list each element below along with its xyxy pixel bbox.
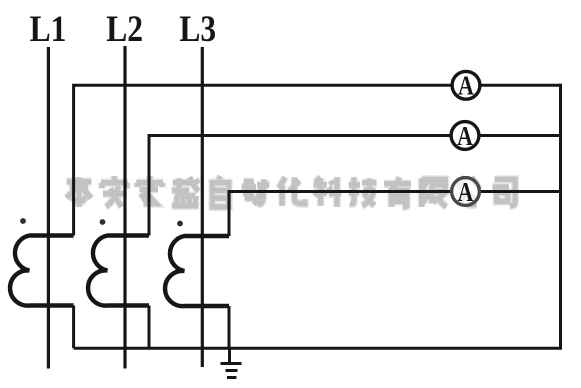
CT3 secondary winding and leads bbox=[165, 236, 229, 348]
svg-text:A: A bbox=[458, 71, 474, 101]
wire bus3 right segment (A3 to right bus) bbox=[480, 190, 561, 193]
wire bus2 right segment (A2 to right bus) bbox=[480, 134, 561, 137]
wire L1 main vertical bbox=[47, 47, 50, 369]
wire bus2 left segment (CT2 tap to ammeter A2) bbox=[149, 136, 451, 236]
wire L2 main vertical bbox=[123, 46, 126, 369]
ammeter A2 bbox=[451, 121, 479, 151]
CT2 polarity dot bbox=[100, 219, 106, 225]
wire L3 main vertical bbox=[201, 47, 204, 367]
ground bbox=[221, 364, 242, 378]
CT1 polarity dot bbox=[20, 218, 26, 224]
svg-text:A: A bbox=[458, 177, 474, 207]
ground stem bbox=[228, 348, 231, 362]
ammeter A1 bbox=[452, 71, 480, 101]
CT3 polarity dot bbox=[177, 221, 183, 227]
svg-text:L3: L3 bbox=[179, 9, 216, 50]
svg-text:A: A bbox=[457, 121, 473, 151]
svg-text:L2: L2 bbox=[106, 9, 143, 50]
wire bus1 right segment (A1 to right bus) bbox=[481, 84, 563, 87]
wire bottom common bus bbox=[74, 347, 562, 350]
wire bus3 left segment (CT3 tap to ammeter A3) bbox=[229, 192, 451, 237]
wire bus1 left segment (CT1 tap to ammeter A1) bbox=[74, 85, 452, 235]
CT1 secondary winding and leads bbox=[10, 236, 74, 349]
CT2 secondary winding and leads bbox=[88, 236, 149, 349]
wire right vertical bus bbox=[559, 84, 562, 349]
svg-text:L1: L1 bbox=[30, 9, 67, 50]
watermark company text (drawn as vector strokes) bbox=[67, 176, 515, 207]
ammeter A3 bbox=[452, 177, 480, 207]
